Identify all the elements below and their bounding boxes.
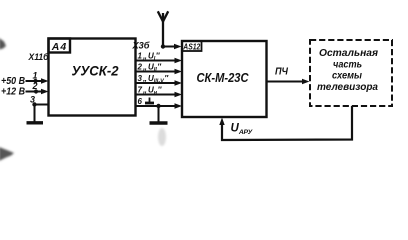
svg-text:3„UIII-V″: 3„UIII-V″: [138, 74, 170, 85]
svg-text:+12 В: +12 В: [1, 87, 25, 98]
svg-text:Х3б: Х3б: [131, 41, 149, 51]
svg-text:схемы: схемы: [332, 70, 362, 81]
svg-text:2„UII″: 2„UII″: [137, 63, 163, 74]
svg-text:А4: А4: [51, 41, 67, 53]
svg-text:+50 В: +50 В: [1, 76, 25, 87]
svg-text:Х11б: Х11б: [28, 52, 49, 62]
svg-text:ПЧ: ПЧ: [275, 67, 289, 78]
svg-text:7„Uн″: 7„Uн″: [138, 86, 163, 97]
svg-text:СК-М-23С: СК-М-23С: [197, 70, 250, 85]
svg-text:часть: часть: [333, 59, 362, 70]
svg-text:6: 6: [138, 97, 143, 106]
svg-text:Остальная: Остальная: [319, 48, 378, 59]
svg-text:АS12: АS12: [183, 41, 201, 51]
svg-text:телевизора: телевизора: [317, 82, 378, 93]
svg-text:УУСК-2: УУСК-2: [72, 64, 119, 79]
svg-text:1„UI″: 1„UI″: [138, 52, 161, 63]
